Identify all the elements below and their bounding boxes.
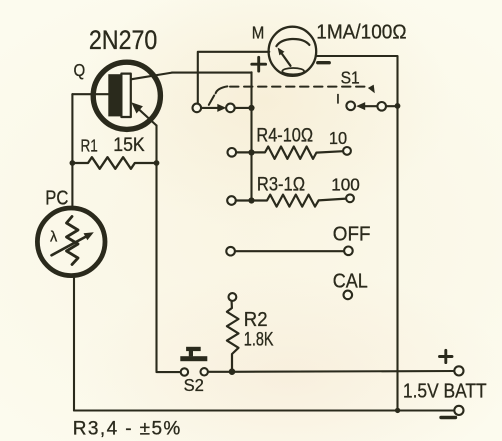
wire contact to rail A: [235, 107, 252, 109]
battery plus sign: [440, 350, 453, 362]
svg-text:10: 10: [329, 127, 347, 148]
terminal circle R2 top: [229, 293, 237, 301]
meter bottom lens: [282, 68, 304, 74]
node right rail bottom: [395, 408, 400, 413]
transistor Q1 body circle: [93, 62, 160, 129]
node rail A R4: [248, 149, 254, 155]
svg-text:R4-10Ω: R4-10Ω: [256, 124, 313, 145]
resistor R3: [236, 195, 346, 207]
wire meter plus branch: [198, 52, 269, 104]
meter scale arc: [276, 39, 309, 46]
svg-text:2N270: 2N270: [89, 26, 157, 56]
svg-text:R3,4 - ±5%: R3,4 - ±5%: [73, 419, 182, 440]
meter minus sign: [318, 61, 329, 64]
wire left rail from base down to PC: [71, 94, 73, 206]
svg-text:100: 100: [331, 174, 360, 194]
switch S1 left contact circle: [226, 104, 235, 113]
svg-text:1.8K: 1.8K: [244, 329, 274, 350]
switch contact circle R4: [228, 148, 237, 157]
svg-text:S1: S1: [341, 67, 360, 87]
node rail A R3: [248, 197, 254, 203]
node right rail S1: [395, 103, 401, 109]
wire meter minus to right rail and down: [316, 56, 398, 410]
switch S2 cap: [186, 347, 201, 351]
wire pole to right rail: [386, 105, 398, 107]
wire OFF contact to terminal: [235, 250, 344, 252]
switch S1 left pole circle: [193, 104, 202, 113]
switch contact circle OFF: [226, 247, 235, 256]
transistor emitter lead: [135, 105, 157, 125]
terminal circle 100: [346, 194, 354, 202]
battery minus terminal: [454, 406, 463, 415]
svg-text:I: I: [336, 91, 340, 107]
svg-text:M: M: [252, 24, 265, 43]
svg-text:1.5V BATT: 1.5V BATT: [403, 379, 487, 401]
wire left rail below PC to bottom: [73, 276, 75, 411]
wire collector to rail A: [172, 72, 252, 74]
meter needle: [281, 53, 291, 66]
terminal circle OFF: [344, 247, 353, 256]
switch S2 left circle: [181, 368, 188, 375]
transistor base bar (filled): [108, 74, 121, 116]
battery plus terminal: [454, 366, 463, 375]
svg-text:Q: Q: [74, 61, 86, 80]
svg-text:PC: PC: [45, 186, 68, 209]
battery minus sign: [441, 416, 456, 419]
wire transistor base to left rail: [72, 93, 108, 95]
switch S2 stem: [189, 351, 193, 356]
switch S2 bar: [180, 356, 207, 361]
svg-text:R3-1Ω: R3-1Ω: [257, 173, 305, 194]
svg-text:1MA/100Ω: 1MA/100Ω: [316, 21, 406, 44]
S1 coupling dashed line: [209, 95, 214, 105]
node R1 right: [154, 160, 160, 166]
meter plus sign: [252, 57, 266, 71]
resistor R4: [236, 147, 343, 159]
switch S1 left pole arrow: [201, 107, 218, 109]
photocell arrow: [52, 236, 88, 255]
wire rail A vertical: [250, 72, 252, 200]
node R1 left: [70, 160, 76, 166]
node R2 bottom: [229, 368, 236, 375]
transistor base bar (outlined): [121, 74, 130, 117]
svg-text:S2: S2: [184, 375, 204, 394]
switch contact circle R3: [227, 196, 236, 205]
switch S2 right circle: [201, 368, 208, 375]
photocell PC circle: [37, 208, 105, 276]
wire emitter rail down to S2: [157, 126, 181, 373]
terminal circle 10: [343, 147, 351, 155]
svg-text:OFF: OFF: [333, 223, 371, 246]
switch S1 right contact circle: [346, 102, 355, 111]
meter M circle: [269, 27, 317, 76]
node rail A top: [248, 105, 254, 111]
wire bottom to battery minus: [74, 409, 454, 411]
wire S2 to battery plus: [208, 370, 454, 373]
transistor emitter arrow: [131, 102, 143, 113]
terminal circle CAL: [344, 291, 353, 300]
svg-text:λ: λ: [50, 230, 58, 246]
switch S1 right pole circle: [377, 102, 386, 111]
resistor R2: [227, 301, 239, 372]
transistor collector lead: [131, 73, 172, 80]
svg-text:CAL: CAL: [333, 271, 368, 293]
switch S1 right pole arrow: [364, 105, 377, 107]
resistor R1: [72, 157, 156, 169]
svg-text:15K: 15K: [113, 133, 145, 155]
photocell zigzag element: [67, 217, 79, 265]
svg-text:R1: R1: [81, 137, 98, 156]
